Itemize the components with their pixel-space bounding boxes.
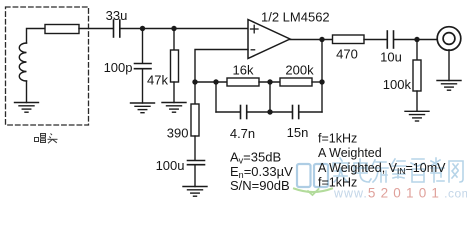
node 200k right	[319, 79, 324, 84]
wire 33u to op-amp + input	[121, 28, 249, 30]
wire 390 to 100u	[194, 136, 196, 160]
wire jack to ground	[448, 50, 450, 81]
wire op-amp output	[290, 39, 333, 41]
node feedback left	[192, 79, 197, 84]
capacitor 33u	[114, 20, 120, 37]
wire node down to 100k	[416, 40, 418, 61]
wire riser 4.7n tap	[215, 82, 217, 112]
svg-text:200k: 200k	[285, 63, 314, 78]
svg-text:47k: 47k	[147, 73, 168, 88]
capacitor 4.7n	[241, 106, 247, 119]
svg-text:15n: 15n	[287, 125, 309, 140]
resistor 470	[333, 35, 365, 44]
wire op-amp inverting input	[195, 50, 248, 83]
wire 470 to 10u	[364, 39, 387, 41]
node 16k-200k junction	[267, 79, 272, 84]
capacitor 100u	[188, 161, 205, 165]
wire riser output to 15n	[321, 40, 323, 113]
resistor (cartridge, unlabeled)	[45, 25, 79, 34]
watermark book icon	[294, 164, 332, 195]
op-amp 1/2 LM4562	[248, 20, 290, 59]
wire 100p to ground	[142, 69, 144, 103]
svg-text:f=1kHz: f=1kHz	[318, 132, 357, 146]
svg-text:100u: 100u	[156, 158, 185, 173]
wire coil top to resistor	[27, 29, 46, 44]
wire cap row left	[216, 111, 240, 113]
resistor 100k	[413, 60, 421, 91]
svg-text:33u: 33u	[106, 8, 128, 23]
svg-text:A Weighted, VIN=10mV: A Weighted, VIN=10mV	[318, 161, 446, 176]
svg-text:10u: 10u	[380, 50, 402, 65]
resistor 200k	[280, 78, 312, 86]
resistor 390	[191, 104, 199, 136]
node at 47k branch	[171, 26, 176, 31]
wire box resistor to 33u	[79, 28, 113, 30]
wire 200k to riser	[312, 81, 322, 83]
svg-text:16k: 16k	[233, 63, 254, 78]
label 唱头 (cartridge) drawn glyphs	[35, 134, 58, 144]
node at 100p branch	[140, 26, 145, 31]
wire node down to 47k	[173, 29, 175, 51]
wire coil bottom to ground	[26, 81, 28, 103]
wire riser mid junction	[269, 82, 271, 112]
cartridge dashed box	[6, 7, 89, 125]
svg-text:4.7n: 4.7n	[230, 126, 255, 141]
node at op-amp output	[319, 37, 324, 42]
node 4.7n tap	[213, 79, 218, 84]
output jack connector	[437, 27, 461, 51]
wire 100k to ground	[416, 91, 418, 111]
wire cap row right	[299, 111, 322, 113]
wire 100u to ground	[194, 165, 196, 187]
ground (47k)	[162, 103, 186, 113]
wire 16k to 200k	[259, 81, 280, 83]
ground (jack)	[437, 81, 461, 91]
svg-text:A Weighted: A Weighted	[318, 146, 382, 160]
inductor (cartridge coil)	[19, 43, 26, 81]
ground (100k)	[405, 111, 429, 121]
wire feedback node to 16k	[195, 81, 227, 83]
node cap row middle	[267, 109, 272, 114]
svg-text:Av=35dB: Av=35dB	[230, 149, 281, 165]
resistor 47k	[171, 50, 179, 82]
wire 10u to jack	[394, 39, 438, 41]
wire feedback node down to 390	[194, 82, 196, 104]
ground (100p)	[131, 103, 155, 113]
capacitor 10u	[387, 31, 393, 48]
svg-text:1/2 LM4562: 1/2 LM4562	[261, 10, 330, 25]
svg-text:S/N=90dB: S/N=90dB	[230, 178, 290, 193]
svg-text:f=1kHz: f=1kHz	[318, 175, 357, 189]
svg-text:100p: 100p	[104, 60, 133, 75]
ground (100u)	[183, 187, 207, 197]
svg-text:470: 470	[336, 47, 358, 62]
capacitor 15n	[293, 106, 299, 119]
watermark chinese characters	[333, 158, 463, 182]
wire node down to 100p	[142, 29, 144, 64]
node at 100k branch	[414, 37, 419, 42]
wire cap row middle	[247, 111, 292, 113]
svg-text:390: 390	[167, 126, 189, 141]
capacitor 100p	[135, 64, 152, 69]
ground (cartridge)	[15, 103, 39, 113]
wire 47k to ground	[173, 82, 175, 103]
svg-text:100k: 100k	[383, 77, 412, 92]
resistor 16k	[227, 78, 259, 86]
